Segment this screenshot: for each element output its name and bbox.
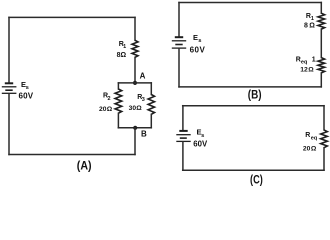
svg-text:eq: eq — [311, 135, 317, 141]
svg-text:1: 1 — [311, 16, 314, 22]
wire: circuit C right wire upper — [323, 106, 325, 130]
wire: circuit C left wire upper — [182, 106, 184, 130]
wire: circuit B right wire upper — [320, 3, 322, 14]
wire: circuit A right branch upper — [134, 17, 136, 40]
wire: left parallel branch lower — [117, 113, 119, 128]
wire: right parallel branch upper — [150, 83, 152, 95]
wire: circuit B right wire lower — [320, 73, 322, 87]
svg-text:eq: eq — [301, 59, 307, 65]
svg-text:Ω: Ω — [309, 23, 315, 30]
svg-text:30: 30 — [129, 105, 137, 112]
wire: circuit A right branch between R1 and node A — [134, 57, 136, 83]
node A junction dot — [133, 81, 137, 85]
resistor R2 20ohm (circuit A) — [115, 89, 122, 113]
label Req1 (circuit B) — [296, 56, 316, 73]
svg-text:12: 12 — [300, 66, 308, 73]
wire: right parallel branch lower — [150, 114, 152, 128]
svg-text:(C): (C) — [250, 173, 263, 186]
svg-text:Ω: Ω — [136, 105, 142, 112]
label R3 (circuit A) — [129, 94, 145, 112]
svg-text:3: 3 — [142, 97, 145, 103]
wire: circuit A bottom wire — [9, 154, 135, 156]
wire: left parallel branch upper — [117, 83, 119, 89]
wire: circuit A left wire lower (battery to bottom) — [8, 94, 10, 155]
svg-text:60V: 60V — [193, 139, 208, 148]
label Es value (circuit B) — [190, 33, 206, 55]
wire: circuit B right wire between R1 and Req1 — [320, 29, 322, 57]
battery Es (circuit B) — [172, 37, 186, 48]
svg-text:s: s — [201, 133, 204, 139]
wire: circuit A node B to bottom wire — [134, 128, 136, 155]
svg-text:Ω: Ω — [311, 146, 317, 153]
svg-text:60V: 60V — [190, 46, 206, 55]
svg-text:1: 1 — [312, 56, 316, 63]
wire: circuit C left wire lower — [182, 142, 184, 170]
node B junction dot — [133, 126, 137, 130]
resistor Req1 12ohm (circuit B) — [318, 58, 325, 73]
label Es value (circuit C) — [193, 127, 208, 148]
wire: parallel box bottom — [118, 127, 151, 129]
wire: circuit A left wire upper (to battery) — [8, 17, 10, 82]
label R2 (circuit A) — [99, 92, 113, 113]
svg-text:(A): (A) — [77, 159, 92, 173]
battery Es (circuit C) — [176, 131, 190, 142]
wire: circuit B bottom wire — [179, 86, 321, 88]
svg-text:B: B — [141, 129, 147, 138]
svg-text:s: s — [198, 38, 201, 44]
svg-text:20: 20 — [303, 146, 311, 153]
resistor R3 30ohm (circuit A) — [148, 95, 154, 115]
svg-text:Ω: Ω — [107, 106, 113, 113]
battery Es (circuit A) — [2, 83, 17, 93]
wire: parallel box top — [118, 82, 151, 84]
svg-text:2: 2 — [108, 96, 111, 102]
resistor Req 20ohm (circuit C) — [321, 130, 328, 148]
svg-text:60V: 60V — [19, 91, 34, 100]
wire: circuit B left wire lower — [178, 49, 180, 87]
resistor R1 8ohm (circuit B) — [318, 13, 325, 29]
svg-text:R: R — [305, 132, 310, 139]
wire: circuit B top wire — [179, 2, 321, 4]
svg-text:E: E — [193, 33, 198, 42]
svg-text:A: A — [140, 72, 146, 81]
svg-text:s: s — [26, 85, 29, 91]
label R1 (circuit B) — [304, 13, 315, 30]
wire: circuit A top wire — [9, 16, 135, 18]
svg-text:8: 8 — [304, 23, 308, 30]
wire: circuit C top wire — [183, 105, 324, 107]
svg-text:20: 20 — [99, 106, 107, 113]
svg-text:Ω: Ω — [308, 66, 314, 73]
svg-text:1: 1 — [123, 44, 126, 50]
label Req (circuit C) — [303, 132, 317, 153]
resistor R1 8ohm (circuit A) — [132, 40, 138, 57]
svg-text:(B): (B) — [248, 87, 262, 101]
wire: circuit B left wire upper — [178, 3, 180, 37]
label R1 (circuit A) — [117, 41, 127, 59]
wire: circuit C bottom wire — [183, 169, 324, 171]
wire: circuit C right wire lower — [323, 148, 325, 171]
svg-text:8Ω: 8Ω — [117, 52, 127, 59]
label Es value (circuit A) — [19, 80, 34, 101]
